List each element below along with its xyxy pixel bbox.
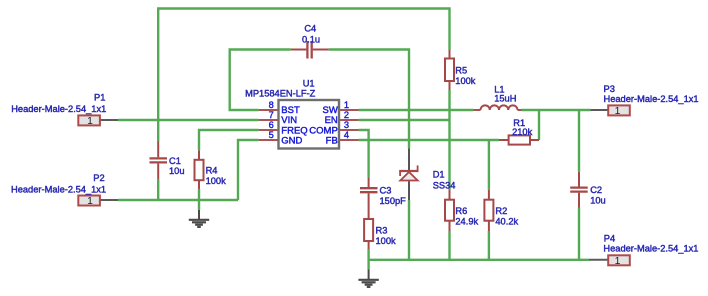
wire EN pin to R5/R6 column: [359, 119, 450, 121]
op-amp U1 chip body MP1584EN-LF-Z: [259, 100, 359, 149]
resistor R2: [484, 190, 493, 231]
wire FB pin to R1 left: [359, 139, 500, 141]
resistor R1: [499, 135, 539, 144]
header P4: [589, 255, 630, 265]
svg-text:24.9k: 24.9k: [455, 216, 478, 226]
header P2: [78, 196, 118, 206]
svg-text:R2: R2: [495, 206, 507, 216]
wire R4 bottom through rail to ground stem: [198, 189, 200, 210]
capacitor C3: [360, 177, 378, 219]
svg-text:1: 1: [615, 106, 621, 117]
svg-text:100k: 100k: [206, 176, 227, 186]
svg-text:R5: R5: [455, 66, 467, 76]
wire D1 anode to rail: [408, 200, 410, 260]
svg-text:210k: 210k: [512, 127, 533, 137]
svg-text:40.2k: 40.2k: [495, 216, 518, 226]
wire VIN top loop from C1 column up over to R5 column: [158, 9, 449, 142]
wire R1 right up to output: [538, 110, 540, 140]
wire C1 bottom to rail: [157, 179, 159, 200]
svg-text:Header-Male-2.54_1x1: Header-Male-2.54_1x1: [603, 243, 698, 253]
svg-text:0.1u: 0.1u: [302, 34, 320, 44]
svg-text:2: 2: [344, 110, 349, 120]
wire output column down to C2: [578, 110, 580, 172]
wire C4 right down to SW node and D1: [329, 50, 409, 149]
wire R5 bottom to R6 top: [448, 90, 450, 190]
svg-text:C1: C1: [169, 156, 181, 166]
svg-text:4: 4: [344, 130, 349, 140]
svg-text:U1: U1: [303, 78, 315, 88]
wire FB node down to R2: [488, 140, 490, 190]
wire R3 bottom through rail to ground stem: [367, 249, 369, 269]
ground under R3: [358, 269, 378, 287]
svg-text:Header-Male-2.54_1x1: Header-Male-2.54_1x1: [11, 104, 106, 114]
header P3: [590, 105, 629, 115]
wire SW pin to L1: [359, 109, 474, 111]
svg-text:P3: P3: [604, 84, 615, 94]
svg-text:MP1584EN-LF-Z: MP1584EN-LF-Z: [245, 89, 316, 99]
svg-text:8: 8: [269, 100, 274, 110]
svg-text:Header-Male-2.54_1x1: Header-Male-2.54_1x1: [11, 184, 106, 194]
capacitor C2: [570, 172, 588, 208]
svg-text:5: 5: [269, 130, 274, 140]
svg-text:D1: D1: [433, 169, 445, 179]
wire L1 right output to P3: [522, 109, 591, 111]
svg-text:R4: R4: [206, 166, 218, 176]
svg-text:C3: C3: [380, 186, 392, 196]
svg-text:1: 1: [87, 116, 93, 127]
capacitor C4: [291, 41, 329, 59]
svg-text:C2: C2: [590, 185, 602, 195]
svg-text:Header-Male-2.54_1x1: Header-Male-2.54_1x1: [604, 94, 699, 104]
svg-text:C4: C4: [304, 24, 316, 34]
svg-text:3: 3: [344, 120, 349, 130]
svg-text:P1: P1: [94, 92, 105, 102]
svg-text:P4: P4: [604, 234, 615, 244]
wire FREQ pin down to R4: [199, 130, 259, 150]
svg-text:1: 1: [344, 100, 349, 110]
svg-text:P2: P2: [93, 173, 104, 183]
capacitor C1: [150, 141, 168, 179]
wire R2 bottom to rail: [488, 231, 490, 260]
wire GND pin down to left rail: [238, 140, 259, 200]
svg-text:GND: GND: [281, 135, 302, 146]
wire COMP pin down to C3: [359, 130, 369, 177]
svg-text:1: 1: [615, 256, 621, 267]
resistor R4: [195, 150, 204, 189]
inductor L1: [474, 105, 522, 110]
svg-text:FB: FB: [326, 135, 338, 146]
svg-text:100k: 100k: [455, 76, 476, 86]
wire R6 bottom to rail: [448, 231, 450, 260]
wire BST pin up to C4 left: [230, 50, 291, 111]
svg-text:R3: R3: [376, 226, 388, 236]
svg-text:R6: R6: [455, 206, 467, 216]
wire left ground rail: [118, 199, 238, 201]
wire P1 to VIN pin: [118, 119, 259, 121]
svg-text:10u: 10u: [169, 166, 185, 176]
svg-text:SS34: SS34: [433, 180, 456, 190]
resistor R3: [364, 219, 373, 249]
ground under R4: [189, 210, 209, 227]
wire C2 bottom to right rail: [578, 208, 580, 260]
resistor R5: [445, 50, 454, 90]
svg-text:10u: 10u: [590, 196, 606, 206]
wire right ground rail: [369, 259, 589, 261]
svg-text:6: 6: [269, 120, 274, 130]
header P1: [78, 115, 118, 125]
resistor R6: [445, 190, 454, 231]
diode D1: [399, 149, 418, 201]
svg-text:15uH: 15uH: [494, 94, 516, 104]
svg-text:100k: 100k: [376, 236, 397, 246]
svg-text:1: 1: [87, 196, 93, 207]
svg-text:150pF: 150pF: [380, 196, 407, 206]
svg-text:7: 7: [269, 110, 274, 120]
